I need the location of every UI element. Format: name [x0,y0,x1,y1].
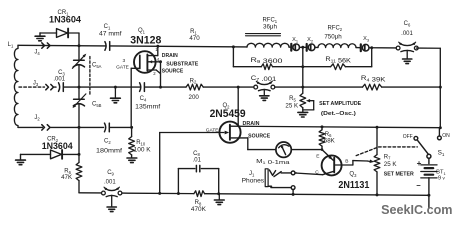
svg-text:DRAIN: DRAIN [162,53,178,59]
svg-text:SET METER: SET METER [384,172,414,178]
svg-text:470: 470 [189,35,200,42]
svg-text:Q3: Q3 [349,172,357,178]
svg-text:C8: C8 [193,151,200,157]
svg-text:R7: R7 [384,154,391,160]
svg-text:RFC2: RFC2 [327,26,342,32]
svg-text:180mmf: 180mmf [96,147,122,154]
svg-text:25 K: 25 K [285,103,299,110]
svg-text:B: B [345,159,348,165]
svg-text:J2: J2 [34,115,40,121]
svg-text:SUBSTRATE: SUBSTRATE [166,61,199,67]
svg-text:200: 200 [189,94,200,101]
svg-text:100 K: 100 K [134,146,152,153]
svg-text:9: 9 [438,176,441,182]
svg-text:SET AMPLITUDE: SET AMPLITUDE [319,101,362,107]
svg-text:.001: .001 [53,76,65,82]
svg-text:2N1131: 2N1131 [338,180,369,191]
svg-text:470K: 470K [191,206,207,213]
svg-text:X2: X2 [307,37,313,43]
svg-text:68K: 68K [324,138,336,145]
svg-text:135mmf: 135mmf [135,103,160,110]
svg-text:(Det.–Osc.): (Det.–Osc.) [321,111,356,117]
svg-text:J4: J4 [34,50,40,56]
svg-text:X1: X1 [292,37,298,43]
svg-text:3N128: 3N128 [130,34,161,46]
svg-text:E: E [316,153,319,159]
svg-text:C5A: C5A [92,63,102,69]
svg-text:J1: J1 [249,171,255,177]
svg-text:C2: C2 [104,139,111,145]
svg-text:DRAIN: DRAIN [243,121,260,127]
svg-text:ON: ON [442,133,450,139]
svg-text:.001: .001 [104,180,116,186]
svg-text:Phones: Phones [242,179,265,185]
svg-text:36μh: 36μh [263,24,277,31]
svg-text:OFF: OFF [403,134,413,140]
svg-text:3: 3 [122,58,125,64]
svg-text:.001: .001 [401,31,413,37]
svg-text:SOURCE: SOURCE [248,133,271,139]
svg-text:C5B: C5B [92,101,102,107]
svg-text:47 mmf: 47 mmf [99,31,122,38]
svg-text:−: − [416,181,421,190]
svg-text:47K: 47K [61,174,73,181]
svg-text:X3: X3 [363,36,369,42]
svg-text:C6: C6 [404,21,411,27]
svg-text:+: + [417,159,422,168]
svg-text:750μh: 750μh [324,33,342,40]
svg-text:C9: C9 [107,170,114,176]
svg-text:GATE: GATE [116,64,129,70]
svg-text:SOURCE: SOURCE [162,69,184,75]
svg-text:SeekIC.com: SeekIC.com [381,202,452,217]
svg-text:J3: J3 [33,81,39,87]
svg-text:L1: L1 [8,42,14,48]
svg-text:R2: R2 [190,78,197,84]
svg-text:1N3604: 1N3604 [49,15,82,25]
svg-text:.01: .01 [193,158,202,164]
svg-text:25 K: 25 K [384,161,398,168]
svg-text:1N3604: 1N3604 [42,141,74,151]
svg-text:GATE: GATE [206,128,219,134]
svg-text:2N5459: 2N5459 [210,108,246,120]
svg-text:C4: C4 [140,96,147,102]
svg-text:R5: R5 [289,96,296,102]
svg-text:C: C [315,169,319,175]
